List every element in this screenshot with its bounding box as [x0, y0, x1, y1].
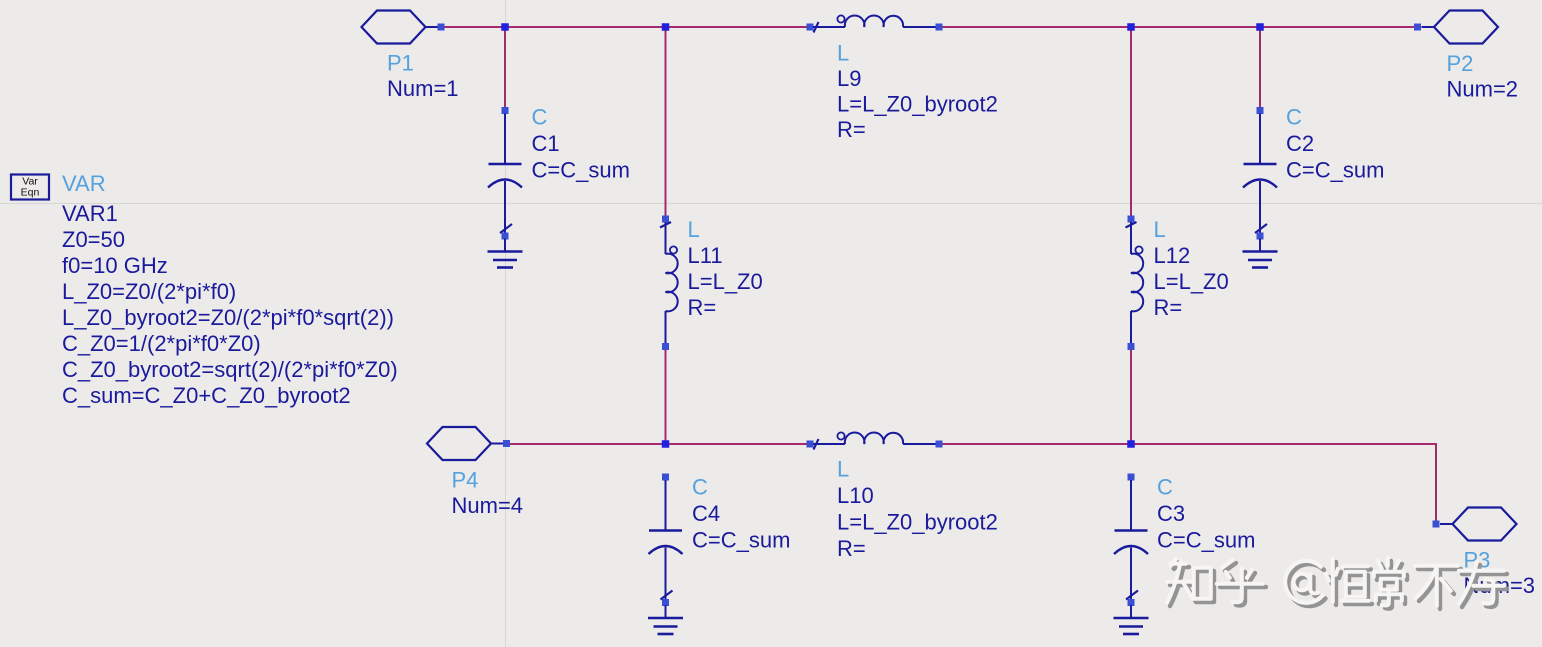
- svg-text:Eqn: Eqn: [21, 187, 40, 199]
- svg-text:C_Z0_byroot2=sqrt(2)/(2*pi*f0*: C_Z0_byroot2=sqrt(2)/(2*pi*f0*Z0): [62, 357, 398, 382]
- svg-text:L: L: [688, 217, 700, 242]
- svg-text:L: L: [1154, 217, 1166, 242]
- svg-text:L=L_Z0: L=L_Z0: [688, 269, 763, 294]
- node junction at (1131,27): [1127, 23, 1135, 31]
- port P2: [1414, 11, 1498, 44]
- port P4: [427, 427, 510, 460]
- wire L11 to bottom rail: [665, 349, 667, 444]
- ground below C1: [488, 252, 523, 268]
- svg-text:C=C_sum: C=C_sum: [1157, 528, 1255, 553]
- VAR1 equations text: [62, 201, 398, 408]
- labels L11: [688, 217, 763, 320]
- svg-text:L_Z0=Z0/(2*pi*f0): L_Z0=Z0/(2*pi*f0): [62, 279, 236, 304]
- svg-text:L10: L10: [837, 483, 874, 508]
- ground below C4: [648, 618, 683, 634]
- wire node1 to L11: [665, 27, 667, 217]
- svg-text:C3: C3: [1157, 501, 1185, 526]
- svg-text:L9: L9: [837, 66, 861, 91]
- labels C1: [532, 105, 630, 183]
- wire top rail right of L9: [939, 26, 1420, 28]
- svg-text:C_Z0=1/(2*pi*f0*Z0): C_Z0=1/(2*pi*f0*Z0): [62, 331, 261, 356]
- svg-text:P2: P2: [1447, 51, 1474, 76]
- svg-text:Num=4: Num=4: [452, 493, 524, 518]
- svg-text:L=L_Z0: L=L_Z0: [1154, 269, 1229, 294]
- svg-text:Num=1: Num=1: [387, 76, 459, 101]
- capacitor C3: [1114, 474, 1148, 619]
- svg-text:R=: R=: [688, 295, 717, 320]
- port P1: [362, 11, 445, 44]
- svg-text:Z0=50: Z0=50: [62, 227, 125, 252]
- svg-text:L=L_Z0_byroot2: L=L_Z0_byroot2: [837, 92, 998, 117]
- wire bottom rail right of L10: [939, 444, 1436, 521]
- svg-text:R=: R=: [1154, 295, 1183, 320]
- wire L12 to bottom rail: [1130, 349, 1132, 444]
- svg-text:C: C: [1157, 475, 1173, 500]
- node junction at (1131,444): [1127, 440, 1135, 448]
- VAR equation icon box: [11, 175, 49, 200]
- capacitor C1: [488, 107, 522, 252]
- svg-text:VAR: VAR: [62, 171, 106, 196]
- node junction at (665.5,27): [662, 23, 670, 31]
- svg-text:L=L_Z0_byroot2: L=L_Z0_byroot2: [837, 510, 998, 535]
- svg-text:R=: R=: [837, 117, 866, 142]
- svg-text:C1: C1: [532, 131, 560, 156]
- svg-text:C=C_sum: C=C_sum: [692, 528, 790, 553]
- svg-text:C=C_sum: C=C_sum: [1286, 158, 1384, 183]
- wire top rail left of L9: [441, 26, 810, 28]
- grid major horizontal line: [0, 203, 1542, 205]
- labels L9: [837, 41, 998, 143]
- svg-text:C: C: [1286, 105, 1302, 130]
- labels C4: [692, 475, 790, 553]
- svg-text:Num=2: Num=2: [1447, 77, 1519, 102]
- svg-text:R=: R=: [837, 536, 866, 561]
- svg-text:C: C: [692, 475, 708, 500]
- wire bottom rail left of L10: [504, 443, 810, 445]
- inductor L12: [1126, 216, 1144, 351]
- wire node2 to L12: [1130, 27, 1132, 217]
- svg-text:L: L: [837, 457, 849, 482]
- watermark 知乎 @恒常不存: [1170, 561, 1507, 609]
- svg-text:P1: P1: [387, 51, 414, 76]
- svg-text:f0=10 GHz: f0=10 GHz: [62, 253, 168, 278]
- inductor L11: [660, 216, 678, 351]
- node junction at (665.5,444): [662, 440, 670, 448]
- svg-text:C2: C2: [1286, 131, 1314, 156]
- port P3: [1433, 508, 1517, 541]
- ground below C2: [1243, 252, 1278, 268]
- wire node1 to C1: [504, 27, 506, 108]
- svg-text:C: C: [532, 105, 548, 130]
- capacitor C4: [649, 474, 683, 619]
- ground below C3: [1114, 618, 1149, 634]
- inductor L9: [807, 15, 943, 32]
- node junction at (505,27): [501, 23, 509, 31]
- labels C3: [1157, 475, 1255, 553]
- inductor L10: [807, 432, 943, 449]
- svg-text:L_Z0_byroot2=Z0/(2*pi*f0*sqrt(: L_Z0_byroot2=Z0/(2*pi*f0*sqrt(2)): [62, 305, 394, 330]
- labels C2: [1286, 105, 1384, 183]
- node junction at (1260,27): [1256, 23, 1264, 31]
- capacitor C2: [1243, 107, 1277, 252]
- wire node2 to C2: [1259, 27, 1261, 108]
- svg-text:P4: P4: [452, 468, 479, 493]
- svg-text:L: L: [837, 41, 849, 66]
- svg-text:L11: L11: [688, 243, 723, 268]
- svg-text:VAR1: VAR1: [62, 201, 118, 226]
- svg-text:L12: L12: [1154, 243, 1191, 268]
- svg-text:C_sum=C_Z0+C_Z0_byroot2: C_sum=C_Z0+C_Z0_byroot2: [62, 383, 351, 408]
- grid major vertical line: [505, 0, 507, 647]
- labels L12: [1154, 217, 1229, 320]
- svg-text:C4: C4: [692, 501, 720, 526]
- svg-text:C=C_sum: C=C_sum: [532, 158, 630, 183]
- labels L10: [837, 457, 998, 562]
